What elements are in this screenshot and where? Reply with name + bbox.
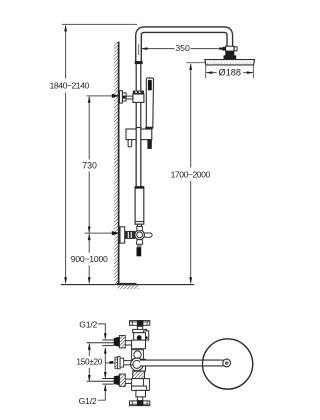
top inlet pipe lines [87, 340, 114, 346]
svg-text:1840~2140: 1840~2140 [50, 81, 90, 91]
head connector nut [224, 51, 237, 59]
middle outlet plate2 [120, 358, 124, 367]
valve down stub [136, 240, 142, 245]
hand shower handle [146, 78, 153, 128]
head collar fitting [226, 46, 238, 51]
wall line [118, 42, 120, 284]
ball joint plan [131, 358, 144, 371]
label G1/2 bottom [79, 385, 107, 407]
dim 350 tick [138, 44, 140, 55]
mixer valve wall flange [120, 227, 125, 243]
dimension Ø188 [206, 68, 253, 78]
svg-text:730: 730 [82, 161, 97, 171]
leader arrow at valve wall flange [112, 231, 120, 235]
floor hatching [117, 285, 138, 289]
dimension 730 [82, 96, 97, 233]
top tee handle [130, 320, 150, 329]
riser pipe through cradle [136, 128, 141, 188]
bottom inlet nut [114, 375, 120, 385]
cradle peg [128, 140, 132, 147]
label G1/2 top [79, 320, 106, 340]
outlet nipple [137, 247, 142, 256]
middle outlet black dash [109, 361, 113, 364]
valve right handle [144, 233, 152, 237]
riser joint band [135, 61, 143, 64]
shower arm plan [140, 360, 223, 367]
wall bracket flange [120, 91, 123, 103]
valve body ring [135, 230, 145, 240]
dimension 1700~2000 [171, 63, 211, 283]
hand shower cradle [126, 129, 152, 140]
top inlet flange block [119, 336, 125, 348]
svg-text:150±20: 150±20 [76, 358, 102, 367]
shower head disc [205, 60, 255, 65]
bottom inlet flange block [119, 374, 125, 386]
middle outlet stub [124, 361, 133, 365]
dim ext line head left [205, 65, 207, 78]
slide bar lower tube [135, 186, 145, 224]
dimension 1840~2140 [50, 25, 90, 284]
svg-text:Ø188: Ø188 [219, 68, 241, 78]
top inlet stub [125, 341, 131, 345]
head collar left nub [222, 47, 226, 51]
bottom inlet pipe lines [87, 379, 114, 385]
bottom tee handle [130, 397, 150, 406]
bracket rod [126, 96, 133, 99]
riser pipe [136, 63, 141, 187]
dim ext line head right [252, 65, 254, 78]
valve left arm [125, 231, 135, 238]
inner gap dimension line [104, 347, 107, 378]
slider dark band [133, 91, 144, 94]
arm tip ball [223, 359, 231, 367]
wall bracket dot [123, 96, 125, 99]
svg-text:G1/2: G1/2 [79, 396, 97, 406]
dimension 900~1000 [71, 234, 108, 284]
shower arm tube [139, 30, 230, 64]
middle outlet centerline [105, 362, 109, 364]
ext line 1700 top [186, 62, 205, 64]
cradle hose nut [147, 140, 151, 149]
slider body [133, 94, 144, 102]
middle outlet plate [118, 357, 121, 369]
outlet collar [137, 244, 142, 247]
svg-text:G1/2: G1/2 [79, 320, 97, 330]
top extension line [62, 23, 137, 25]
dimension 150±20 [76, 343, 102, 382]
floor line [61, 284, 194, 285]
ext line valve center [85, 232, 112, 234]
cradle top strip [145, 127, 152, 130]
big circle outline over arm [203, 339, 253, 389]
leader arrow at wall bracket [112, 94, 120, 98]
tube neck [138, 224, 142, 230]
dimension 350 [141, 43, 226, 53]
wall bracket block [122, 93, 126, 101]
svg-text:1700~2000: 1700~2000 [171, 169, 211, 179]
floor thick base [117, 283, 137, 285]
valve body plan [132, 329, 150, 397]
middle outlet hatch strip [115, 357, 118, 368]
ext line 730 top [87, 95, 112, 97]
valve upper collar [137, 226, 143, 230]
top inlet nut [114, 337, 120, 347]
big circle shower head plan [203, 339, 253, 389]
wall hatching [114, 42, 118, 284]
svg-text:350: 350 [175, 43, 190, 53]
svg-text:900~1000: 900~1000 [71, 254, 108, 264]
bottom inlet stub [125, 379, 131, 383]
